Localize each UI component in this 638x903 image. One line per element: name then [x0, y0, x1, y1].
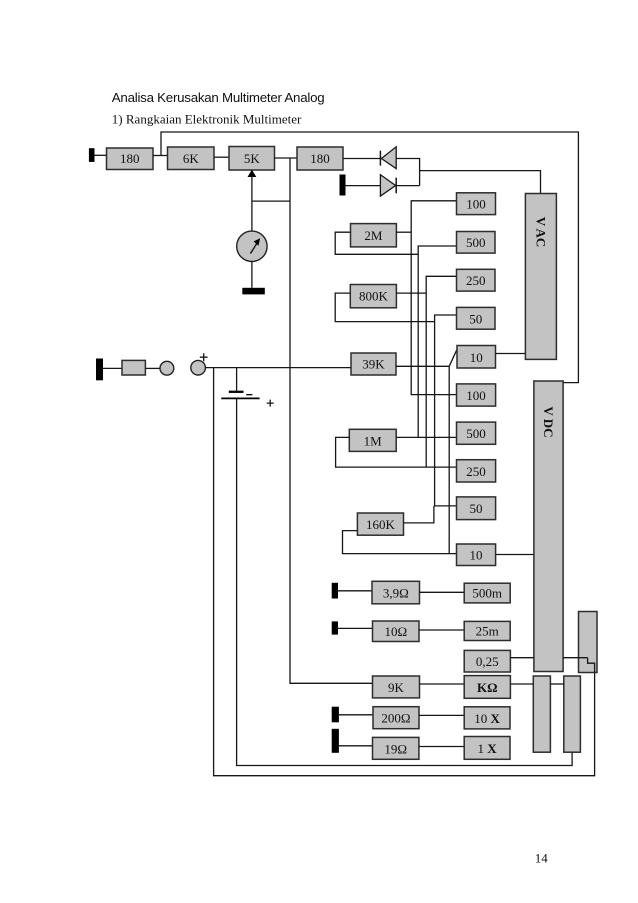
range box 100 VDC [457, 384, 496, 406]
range box 10 VDC [457, 544, 496, 566]
wire R10 to 500m [420, 591, 465, 593]
svg-text:800K: 800K [359, 289, 389, 304]
range box 10X [464, 707, 510, 729]
wire bus B to 500 VAC [418, 246, 456, 437]
wire shunt box1 to box2 [550, 683, 563, 685]
svg-text:200Ω: 200Ω [381, 711, 410, 726]
resistor R11 10 ohm [373, 621, 420, 642]
meter M1 [237, 231, 267, 261]
resistor R1 180 [107, 148, 154, 170]
resistor R10 3.9 ohm [372, 581, 420, 604]
wire R6 right to bus C [396, 292, 426, 294]
svg-text:50: 50 [469, 311, 482, 326]
battery BT1 [221, 368, 273, 407]
svg-text:500: 500 [466, 235, 486, 250]
range box 500m [464, 583, 510, 603]
resistor R7 39K [351, 353, 396, 375]
jack J2 plus [191, 360, 206, 375]
svg-text:39K: 39K [362, 357, 385, 372]
svg-text:160K: 160K [366, 517, 396, 532]
resistor R6 800K [350, 285, 396, 308]
svg-text:6K: 6K [183, 151, 200, 166]
svg-text:Analisa Kerusakan Multimeter A: Analisa Kerusakan Multimeter Analog [112, 90, 325, 105]
wire R3 to R4 [275, 157, 298, 159]
svg-text:10 X: 10 X [474, 711, 500, 726]
svg-text:25m: 25m [476, 623, 499, 638]
svg-text:250: 250 [466, 464, 486, 479]
wire R8 right to 500 VDC [396, 436, 456, 438]
resistor R14 19 ohm [373, 737, 419, 759]
wire R4 to D1 [343, 158, 380, 160]
wire R2 to R3 [214, 156, 229, 158]
resistor R4 180 [297, 147, 343, 170]
wire T6 to R13 [339, 714, 373, 716]
terminal T4 (3.9 ohm row jack) [332, 583, 338, 599]
resistor R5 2M [351, 224, 397, 247]
wire rectified output to V AC top [420, 171, 541, 194]
wire V DC right to shunt R block [563, 657, 588, 659]
resistor R12 9K [373, 676, 420, 698]
svg-text:3,9Ω: 3,9Ω [383, 586, 409, 601]
wire top loop from node between 180 and 6K up, across page, down to V DC right side [161, 132, 578, 383]
svg-text:180: 180 [310, 151, 330, 166]
wire T4 to R10 [338, 590, 372, 592]
wire D2 to junction [396, 185, 419, 187]
shunt block R (right) [579, 612, 598, 673]
svg-text:14: 14 [535, 850, 549, 865]
wire T7 to R14 [339, 745, 373, 747]
range box 500 VDC [457, 422, 496, 444]
shunt box1 [533, 676, 550, 752]
wire K-ohm to shunt box1 [510, 683, 533, 685]
wire R1 to R2 [153, 155, 168, 157]
svg-text:KΩ: KΩ [477, 680, 498, 695]
fuse F1 [122, 360, 145, 375]
range box 250 VDC [457, 460, 496, 482]
svg-text:V AC: V AC [533, 217, 548, 247]
terminal T1 (top-left jack) [89, 148, 95, 162]
wire R7 right to bus E with diagonal to 10 VAC [396, 350, 457, 554]
wire meter branch to left bus [252, 200, 290, 202]
wire T5 to R11 [338, 627, 373, 629]
resistor R3 5K [229, 147, 275, 171]
range box 1X [464, 737, 510, 760]
wire common rail down from plus node to bottom outer rail and shunt box [214, 368, 595, 776]
range box 25m [464, 621, 510, 640]
wire fuse to jack J1 [145, 367, 160, 369]
wire node X down left bus to 9K [290, 158, 373, 683]
wire 10 VAC to V AC block [496, 353, 526, 355]
V DC block [534, 381, 563, 672]
wire wiper arrow of R3 to meter [251, 176, 253, 232]
wire bus D [435, 315, 457, 506]
resistor R9 160K [357, 513, 403, 535]
wire R6 left loop to bus D [335, 293, 434, 322]
svg-text:500m: 500m [472, 586, 502, 601]
wire 0,25 to V DC block [510, 657, 534, 659]
svg-text:100: 100 [466, 388, 486, 403]
wire R13 to 10X [419, 714, 464, 716]
diode D1 [380, 147, 396, 169]
terminal T6 (200 ohm row jack) [332, 707, 339, 723]
svg-text:500: 500 [466, 426, 486, 441]
terminal T3 (left input jack) [96, 359, 103, 381]
terminal T2 (diode-row jack) [340, 175, 346, 196]
svg-text:10Ω: 10Ω [384, 624, 407, 639]
wire R12 to K-ohm [420, 683, 465, 685]
svg-text:50: 50 [470, 501, 483, 516]
svg-text:1M: 1M [364, 433, 383, 448]
wire T1 to R1 [95, 154, 107, 156]
resistor R8 1M [349, 429, 396, 451]
wire 10 VDC to V DC block [496, 554, 534, 556]
svg-text:100: 100 [466, 196, 486, 211]
svg-text:1) Rangkaian Elektronik Multim: 1) Rangkaian Elektronik Multimeter [112, 111, 302, 126]
wire R14 to 1X [419, 746, 464, 748]
arrowhead at R3 wiper [248, 170, 257, 177]
wire bus C [426, 276, 456, 467]
range box 10 VAC [457, 346, 496, 369]
range box 0,25 [464, 650, 510, 672]
V AC block [525, 194, 556, 360]
wire meter to ground [251, 262, 253, 288]
wire battery minus down to bottom inner rail and shunt box2 [237, 399, 572, 766]
range box 50 VDC [457, 497, 496, 520]
svg-text:250: 250 [466, 273, 486, 288]
terminal T7 (19 ohm row jack) [332, 729, 339, 753]
wire R9 right riser to 50 VDC tap [404, 506, 434, 523]
wire bus A with taps to 100 ranges [411, 201, 456, 395]
wire T2 to D2 [346, 185, 381, 187]
wire R5 left loop to bus B [335, 232, 418, 254]
wire R9 left loop to 10 VDC [343, 531, 457, 554]
range box 100 VAC [457, 193, 496, 215]
svg-text:V DC: V DC [541, 406, 556, 437]
diode D2 [380, 175, 396, 196]
range box 500 VAC [457, 232, 496, 254]
svg-text:9K: 9K [388, 680, 405, 695]
wire D1 to junction [396, 159, 419, 186]
svg-text:1 X: 1 X [478, 741, 498, 756]
svg-text:10: 10 [470, 350, 483, 365]
shunt box2 [564, 676, 581, 752]
jack J1 [160, 361, 174, 375]
wire J2 to R7 39K [205, 367, 351, 369]
range box K-ohm [464, 676, 510, 699]
label + at J2 [200, 353, 208, 361]
wire T3 to fuse [103, 367, 122, 369]
terminal T5 (10 ohm row jack) [332, 621, 338, 634]
resistor R2 6K [168, 147, 215, 170]
ground [242, 288, 264, 295]
svg-text:10: 10 [470, 548, 483, 563]
range box 250 VAC [457, 269, 496, 291]
wire hook inside shunt block R [588, 658, 595, 673]
wire R11 to 25m [419, 629, 464, 631]
wire R5 right to bus A [396, 231, 411, 233]
resistor R13 200 ohm [373, 707, 419, 729]
svg-text:2M: 2M [364, 228, 383, 243]
svg-text:19Ω: 19Ω [384, 741, 407, 756]
range box 50 VAC [457, 307, 496, 329]
svg-text:0,25: 0,25 [476, 654, 499, 669]
svg-text:180: 180 [120, 151, 140, 166]
svg-text:5K: 5K [244, 151, 261, 166]
wire R8 left loop to 250 VDC [336, 437, 457, 467]
